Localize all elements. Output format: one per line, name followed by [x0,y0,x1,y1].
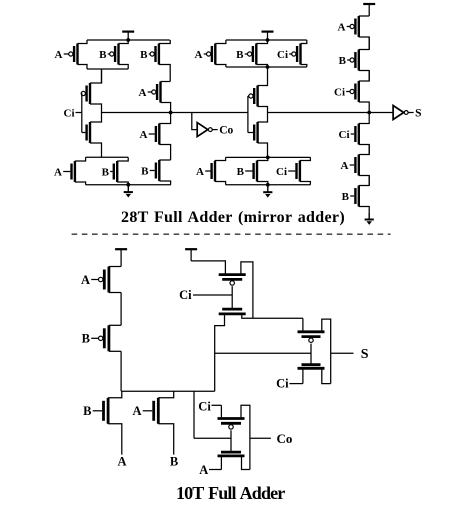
svg-text:Ci: Ci [179,288,192,302]
transistor NMOS gate A (10T pass) [132,391,173,454]
node A input (Co stage) [199,456,221,477]
junction dot node Sbar [367,111,371,115]
transistor NMOS (10T Co stage) [218,452,245,456]
svg-text:B: B [99,49,107,61]
transistor PMOS gate A (carry series) [139,82,171,113]
svg-text:A: A [132,404,141,418]
transistor PMOS (10T Co stage) [218,419,245,430]
transistor NMOS gate A (carry series) [140,113,171,161]
wire Co PMOS drain [241,405,250,469]
power VDD symbol (carry left) [122,32,134,40]
svg-text:Ci: Ci [276,166,287,178]
svg-text:Co: Co [277,431,293,446]
transistor PMOS gate Ci (sum series) [334,71,369,113]
svg-text:B: B [82,332,90,346]
transistor PMOS gate A (carry parallel) [55,40,87,69]
transistor PMOS gate A (10T) [81,267,121,293]
ground symbol (sum series) [365,213,374,225]
transistor PMOS gate Cob (sum) [249,67,268,113]
wire VDD rail (carry left) [87,39,170,41]
svg-text:28T Full Adder (mirror adder): 28T Full Adder (mirror adder) [121,209,345,226]
transistor PMOS gate B (sum series) [339,37,370,81]
label caption 28T [121,209,345,226]
wire node N1 [87,68,128,70]
node Co output [250,431,292,446]
transistor NMOS gate B (sum series) [342,176,370,214]
wire ground rail (sum) [226,184,311,186]
transistor PMOS gate B (carry series) [140,40,170,82]
wire Co gate stem [230,430,232,452]
wire left column mid [120,293,122,326]
transistor NMOS gate B (10T pass) [83,391,122,454]
wire S gate stem [310,344,312,365]
svg-text:A: A [117,455,126,469]
svg-text:A: A [139,87,147,99]
wire Cob gate tap PMOS [247,95,250,97]
wire left column drop [120,351,122,391]
svg-text:A: A [338,21,346,33]
node S output [331,347,369,362]
power VDD symbol (10T stage2) [185,249,197,261]
inverter Co [197,123,233,137]
power VDD symbol (10T left) [115,249,127,266]
wire node N2 [86,156,129,158]
wire stage2 output node [242,314,303,318]
node Ci input (S stage) [276,368,303,390]
separator dashed line [72,233,391,235]
transistor PMOS gate B (10T) [82,325,121,351]
wire node Sbar [268,112,394,114]
svg-text:A: A [195,49,203,61]
svg-text:Ci: Ci [277,49,288,61]
junction dot node Cob left [169,111,173,115]
wire Cob gate tap NMOS [248,132,253,134]
transistor PMOS gate A (sum parallel) [195,40,226,67]
wire Co NMOS drain [242,456,250,470]
wire Co inverter input [192,113,197,130]
wire ground rail (carry) [86,184,171,186]
svg-text:B: B [236,49,244,61]
transistor PMOS gate Ci (10T stage2) [219,275,246,286]
junction dot VDD rail [126,38,130,42]
transistor NMOS gate B (sum parallel) [237,157,268,184]
transistor NMOS gate Ci (sum parallel) [276,157,310,184]
transistor PMOS gate B (sum parallel) [236,40,267,67]
junction dot node N3 [266,156,270,160]
junction dot ground rail [126,183,130,187]
svg-text:B: B [170,455,178,469]
transistor NMOS gate Ci (carry) [87,113,102,158]
label source A (10T pass B) [117,455,126,469]
svg-text:A: A [55,49,63,61]
power VDD symbol (sum) [262,32,274,40]
junction dot ground rail sum [266,183,270,187]
wire S NMOS drain [322,368,331,383]
svg-text:B: B [83,404,91,418]
svg-text:B: B [102,166,110,178]
transistor NMOS gate B (carry series) [141,160,170,185]
wire node N4 [226,66,307,68]
wire S gate net [215,352,311,354]
wire node N1 drop [101,69,103,83]
transistor NMOS (10T S stage) [298,365,325,369]
svg-text:Ci: Ci [276,376,289,390]
svg-text:A: A [199,463,208,477]
wire Co gate net [194,437,231,439]
svg-text:A: A [81,273,90,287]
svg-text:A: A [54,166,62,178]
wire S PMOS source [302,318,304,332]
svg-text:B: B [140,49,148,61]
node Ci input [64,94,86,133]
svg-text:S: S [361,347,369,362]
svg-text:S: S [415,107,421,119]
transistor NMOS gate Cob (sum) [254,113,267,158]
power VDD symbol (sum series) [363,4,375,16]
transistor NMOS gate B (carry parallel) [102,157,129,184]
label source B (10T pass A) [170,455,178,469]
svg-text:Ci: Ci [64,107,75,119]
wire node N3 [226,156,311,158]
node Ci input (stage2) [179,286,232,310]
transistor NMOS gate Ci (sum series) [339,113,370,155]
svg-text:10T Full Adder: 10T Full Adder [176,483,285,503]
transistor NMOS gate A (sum parallel) [196,157,226,184]
inverter S [393,106,421,120]
transistor PMOS gate Ci (carry) [81,69,101,113]
wire VDD rail (sum) [226,39,307,41]
svg-text:Ci: Ci [334,86,345,98]
wire NMOS source to W1 column [215,314,225,391]
transistor NMOS gate A (sum series) [341,145,370,186]
ground symbol (sum) [263,185,272,198]
wire PMOS drain to X2 [241,262,253,318]
transistor PMOS (10T S stage) [298,332,325,343]
junction dot VDD rail sum [266,38,270,42]
label caption 10T [176,483,285,503]
svg-text:B: B [237,166,245,178]
svg-text:B: B [141,165,149,177]
transistor PMOS gate B (carry parallel) [99,40,128,69]
wire node W1 [121,390,215,392]
svg-text:Ci: Ci [339,129,350,141]
svg-text:B: B [342,191,350,203]
wire Cob gate line [247,96,249,133]
svg-text:A: A [196,166,204,178]
wire S PMOS drain [322,319,331,384]
ground symbol (carry) [124,185,133,198]
wire Co gate net drop [193,391,195,438]
transistor NMOS gate Ci (10T stage2) [219,309,246,314]
transistor PMOS gate Ci (sum parallel) [277,40,307,67]
svg-text:B: B [339,55,347,67]
svg-text:A: A [140,129,148,141]
svg-text:Ci: Ci [198,400,211,414]
svg-text:A: A [341,160,349,172]
junction dot node N4 [266,65,270,69]
node Ci input (Co stage) [198,400,221,419]
transistor PMOS gate A (sum series) [338,16,370,50]
transistor NMOS gate A (carry parallel) [54,157,86,184]
wire node Cob [102,112,248,114]
svg-text:Co: Co [219,125,233,137]
wire VDD to PMOS source [191,261,225,275]
